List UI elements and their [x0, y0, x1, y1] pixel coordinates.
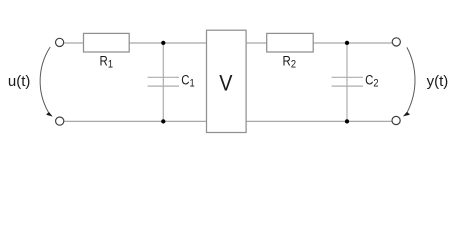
- svg-text:V: V: [219, 72, 232, 96]
- svg-text:y(t): y(t): [427, 73, 449, 90]
- svg-text:u(t): u(t): [8, 73, 31, 90]
